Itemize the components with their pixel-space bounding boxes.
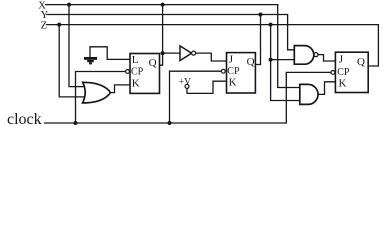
flip-flop U1 box <box>130 54 160 94</box>
wire AND output to FF3 K input <box>318 82 335 95</box>
svg-text:J: J <box>339 53 344 65</box>
+V supply terminal <box>179 77 191 88</box>
wire X bus: X line from label to right corner, down to AND gate input <box>45 5 301 88</box>
flip-flop U2 box <box>227 53 256 93</box>
U2 CP inversion bubble <box>221 69 225 73</box>
wire OR output to FF1 K input <box>110 85 130 93</box>
wire X tap down to OR gate upper input <box>69 5 85 87</box>
inverter U4 <box>180 46 192 61</box>
wire clock line across bottom, corner up to FF3 CP <box>44 72 331 123</box>
junction dot on Y line (FF2 Q riser) <box>259 13 263 17</box>
or-gate G1 feeding FF1 K <box>83 82 111 103</box>
wire Z tap down to AND gate lower input <box>271 25 301 101</box>
U4 output bubble <box>192 51 196 55</box>
U3 CP inversion bubble <box>331 71 335 75</box>
wire FF2 Q riser up to Y line <box>255 15 260 65</box>
wire Z bus: Z line from label to right end, down to FF3 Q wire <box>46 25 378 66</box>
wire inverter input tap <box>163 52 180 54</box>
wire inverter output to FF2 J input <box>196 53 227 61</box>
svg-text:CP: CP <box>337 67 350 78</box>
ground symbol feeding FF1 J <box>84 58 97 63</box>
junction dot inverter tap on Q riser <box>161 51 165 55</box>
svg-text:K: K <box>229 77 237 89</box>
wire +V to FF2 K input <box>187 81 227 93</box>
flip-flop U3 box <box>335 52 368 92</box>
svg-text:J: J <box>229 53 234 65</box>
svg-text:CP: CP <box>131 67 144 78</box>
wire Z tap down to OR gate lower input <box>59 25 85 97</box>
junction dot on Z line at x=59.2 <box>57 23 61 27</box>
svg-text:Q: Q <box>247 56 255 68</box>
svg-text:Y: Y <box>41 10 49 21</box>
junction dot on X line at x=162.6 (FF1 Q riser) <box>161 3 165 7</box>
svg-text:clock: clock <box>7 111 42 128</box>
svg-text:Z: Z <box>41 20 47 31</box>
wire ground to FF1 J input <box>90 47 130 60</box>
svg-text:K: K <box>339 78 347 90</box>
wire Y bus: Y line from label right, corner down to NAND upper input <box>46 15 294 50</box>
svg-text:L: L <box>132 54 139 66</box>
junction dot clock tap FF1 <box>74 121 78 125</box>
svg-text:CP: CP <box>227 66 240 77</box>
junction dot on Z line at x=270.6 <box>269 23 273 27</box>
svg-text:K: K <box>132 77 140 89</box>
svg-text:Q: Q <box>357 56 365 68</box>
wire NAND output to FF3 J input <box>318 55 335 61</box>
U1 CP inversion bubble <box>126 70 130 74</box>
junction dot on Z tap for NAND lower input <box>269 58 273 62</box>
wire FF1 Q riser up to X line <box>160 5 163 66</box>
wire clock riser to FF1 CP <box>76 72 126 124</box>
svg-text:Q: Q <box>149 57 157 69</box>
and-gate G3 feeding FF3 K <box>300 84 318 104</box>
junction dot on X line at x=69 <box>67 3 71 7</box>
wire NAND lower input from Z tap <box>271 59 295 61</box>
wire clock riser to FF2 CP <box>170 71 222 123</box>
junction dot clock tap FF2 <box>168 121 172 125</box>
nand-gate G2 feeding FF3 J <box>294 46 318 65</box>
